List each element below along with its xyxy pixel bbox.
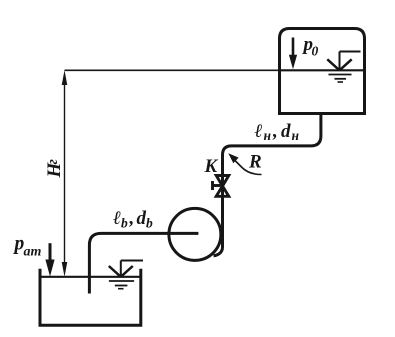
suction pipe (lower tank to pump center) — [89, 233, 198, 293]
Hг dimension line (double arrow between water levels) — [62, 70, 68, 276]
label p0 — [302, 34, 319, 59]
svg-text:ℓ: ℓ — [113, 208, 121, 229]
label lн, dн — [255, 121, 300, 143]
upper tank water line and Hг reference line — [65, 69, 281, 71]
svg-text:R: R — [248, 152, 262, 173]
upper tank free-surface level mark — [327, 52, 360, 83]
p0 pressure arrow — [289, 38, 297, 70]
svg-text:ат: ат — [24, 244, 42, 259]
svg-text:н: н — [292, 128, 300, 143]
svg-text:b: b — [146, 216, 153, 231]
label lв, dв — [113, 208, 153, 231]
upper tank — [280, 29, 365, 114]
svg-text:,: , — [272, 121, 278, 142]
label R with leader arrow to pipe elbow — [228, 153, 261, 174]
label Hг (rotated) — [44, 159, 65, 179]
label p_ат — [13, 233, 42, 259]
lower tank (open top) — [40, 269, 141, 326]
svg-text:d: d — [281, 121, 291, 142]
pump (circle) — [169, 208, 221, 260]
svg-text:0: 0 — [312, 43, 319, 58]
lower tank water line — [40, 276, 141, 278]
label K — [204, 156, 219, 177]
svg-text:K: K — [204, 156, 219, 177]
svg-text:ℓ: ℓ — [255, 121, 263, 142]
p_ат pressure arrow — [45, 243, 54, 276]
svg-text:d: d — [137, 208, 147, 229]
discharge pipe (upper tank to valve to pump) — [214, 114, 321, 256]
svg-text:г: г — [45, 159, 61, 165]
valve K (bowtie on vertical pipe with stem) — [213, 176, 229, 197]
lower tank free-surface level mark — [109, 261, 143, 289]
svg-text:н: н — [264, 128, 272, 143]
svg-text:,: , — [129, 208, 135, 229]
svg-text:b: b — [121, 216, 128, 231]
